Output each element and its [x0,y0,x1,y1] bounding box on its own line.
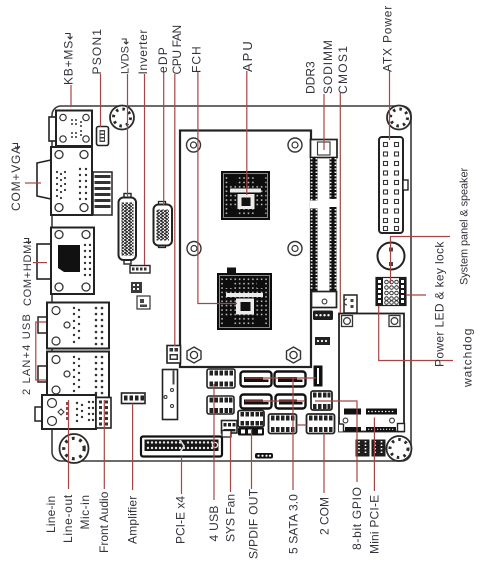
label SODIMM [321,39,335,94]
header above S/PDIF [238,411,264,428]
svg-text:PCI-E x4: PCI-E x4 [174,496,188,544]
label Power LED & key lock [433,241,447,367]
leader LVDS [127,74,129,197]
LAN+USB block 2 [38,352,109,398]
leader SYS Fan [230,433,232,492]
KB+MS PS/2 connector [49,111,92,147]
svg-text:LVDS: LVDS [120,46,132,74]
mounting hole bottom-right [387,436,412,461]
svg-text:S/PDIF OUT: S/PDIF OUT [247,488,261,559]
leader CPU FAN [174,74,176,346]
leader System panel & speaker [391,237,451,284]
svg-text:APU: APU [240,39,255,72]
PCI-E x4 slot [141,437,222,457]
hex standoff bottom-right [287,347,301,363]
svg-text:COM+VGA: COM+VGA [9,145,23,211]
leader CMOS1 [339,93,341,313]
COM+HDMI connector [37,228,94,295]
eDP connector [154,202,173,248]
label S/PDIF OUT [247,488,261,559]
vertical SATA port [314,366,323,387]
board outline [52,106,411,461]
LAN+USB block 1 [38,303,109,349]
label KB+MS [62,34,76,86]
heatsink hole mid-right [288,242,302,256]
svg-text:FCH: FCH [189,45,203,73]
speaker [378,243,405,270]
8-bit GPIO header [311,391,332,410]
label 4 USB [207,505,221,541]
label CPU FAN [170,25,184,74]
SATA port 2 [275,372,306,387]
svg-text:SODIMM: SODIMM [321,39,335,94]
label Mic-in [78,495,92,530]
SATA port 4 [276,395,306,409]
leader S/PDIF OUT [251,430,253,489]
svg-text:COM+HDMI: COM+HDMI [22,240,34,306]
CMOS1 jumper [344,295,357,313]
leader 8-bit GPIO [315,401,357,482]
svg-text:5 SATA 3.0: 5 SATA 3.0 [287,494,301,554]
ATX power connector [379,137,408,233]
mounting hole top-right [387,106,411,130]
audio jack block [35,395,96,429]
APU chip [221,171,270,220]
label Mini PCI-E [368,495,382,554]
leader Inverter [144,74,146,265]
svg-text:ATX Power: ATX Power [381,5,395,72]
leader watchdog [379,306,453,361]
leader APU [246,71,248,195]
mounting hole bottom-left [60,434,89,463]
small box at PCI-E right end [222,431,231,438]
svg-text:watchdog: watchdog [461,328,475,388]
Mini PCI-E card [339,314,405,432]
amplifier connector [122,393,146,404]
svg-text:Mic-in: Mic-in [78,495,92,530]
small component below inverter [131,282,150,309]
label DDR3 [304,61,318,94]
USB header 2 [207,396,234,414]
label LVDS [120,39,132,74]
label PCI-E x4 [174,496,188,544]
svg-text:Line-in: Line-in [44,496,58,533]
label PSON1 [90,28,104,75]
label Line-out [61,494,75,543]
leader Power LED & key lock [406,294,426,296]
inverter connector [130,266,150,274]
S/PDIF OUT strip [238,428,264,436]
small 4-pin strip below [315,337,330,345]
leader PSON1 [100,74,102,127]
svg-text:Front Audio: Front Audio [97,491,111,553]
label watchdog [461,328,475,388]
heatsink hole top-right [288,138,302,152]
label FCH [189,45,203,73]
svg-text:eDP: eDP [156,46,170,73]
label System panel & speaker [459,168,471,285]
leader 2 LAN+4 USB bracket [36,322,46,380]
svg-text:PSON1: PSON1 [90,28,104,75]
leader 4 USB [213,384,215,500]
svg-text:Line-out: Line-out [61,494,75,543]
label 2 LAN+4 USB [21,313,33,395]
leader 2 COM [297,425,325,493]
CPU FAN connector [167,346,181,364]
heatsink hole mid-left [187,242,201,256]
svg-text:2 COM: 2 COM [318,497,332,535]
label CMOS1 [336,45,350,94]
leader Amplifier [132,404,134,491]
system panel header [376,278,406,306]
mounting hole top-left [110,106,134,130]
hex standoff bottom-left [187,347,201,363]
leader FCH [198,72,237,304]
leader PCI-E x4 [181,457,183,495]
LVDS connector [119,194,137,265]
label Amplifier [126,496,140,544]
front audio header [96,398,111,429]
dotted block below SODIMM [313,311,333,321]
leader COM+VGA [25,182,41,184]
leader Line-out [68,400,70,489]
svg-text:Mini PCI-E: Mini PCI-E [368,495,382,554]
PSON1 connector [97,127,109,146]
svg-text:4 USB: 4 USB [207,505,221,541]
leader COM+HDMI [33,262,47,264]
COM+VGA connector [37,147,92,215]
svg-text:Amplifier: Amplifier [126,496,140,544]
SYS fan connector [222,421,238,434]
leader DDR3 SODIMM [323,94,325,150]
leader ATX Power [389,71,391,140]
label Line-in [44,496,58,533]
svg-text:CMOS1: CMOS1 [336,45,350,94]
label 8-bit GPIO [350,486,364,550]
label COM+HDMI [22,239,34,307]
twin headers below mini pcie [356,440,386,457]
svg-text:System panel & speaker: System panel & speaker [459,168,471,285]
svg-text:2 LAN+4 USB: 2 LAN+4 USB [21,313,33,395]
svg-text:KB+MS: KB+MS [62,40,76,85]
label APU [240,39,255,72]
COM header right [307,414,335,434]
COM header left [269,414,297,434]
label SYS Fan [224,494,238,542]
inner CPU module rectangle [180,131,311,368]
tall white box (regulator) [163,370,178,420]
leader eDP [163,72,165,205]
DDR3 SODIMM socket top bracket [311,140,338,158]
svg-text:DDR3: DDR3 [304,61,318,94]
label 2 COM [318,497,332,535]
svg-text:CPU FAN: CPU FAN [170,25,184,74]
label COM+VGA [9,144,23,212]
SODIMM contact row left [310,157,318,292]
label eDP [156,46,170,73]
4-dot strip on bottom edge [255,453,273,459]
svg-text:Power LED & key lock: Power LED & key lock [433,241,447,367]
SATA port 1 [241,372,272,387]
heatsink hole top-left [187,138,201,152]
choke block right of COM+VGA [93,172,112,215]
label Front Audio [97,491,111,553]
SATA port 3 [241,395,272,409]
label 5 SATA 3.0 [287,494,301,554]
svg-text:8-bit GPIO: 8-bit GPIO [350,486,364,550]
svg-text:SYS Fan: SYS Fan [224,494,238,542]
SODIMM socket bottom bracket [312,292,337,308]
svg-text:Inverter: Inverter [136,29,150,74]
label ATX Power [381,5,395,72]
SODIMM contact row right [329,157,337,292]
label Inverter [136,29,150,74]
USB header 1 [207,369,235,388]
leader 5 SATA 3.0 [245,378,316,490]
FCH chip [217,268,272,331]
leader KB+MS [70,85,72,107]
leader Mini PCI-E [373,418,375,492]
leader Front Audio [103,400,105,489]
